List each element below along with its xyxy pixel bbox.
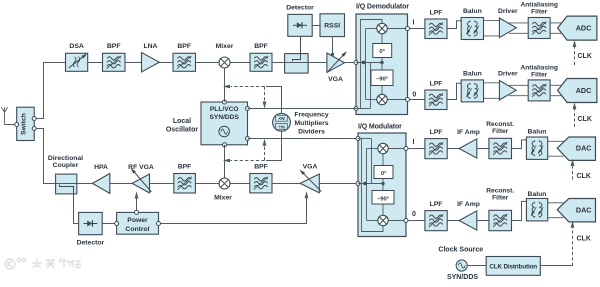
attenuator DSA bbox=[66, 53, 88, 71]
svg-text:I: I bbox=[413, 20, 415, 27]
wire power control to TX VGA bbox=[161, 199, 307, 224]
amplifier driver bbox=[499, 80, 516, 100]
wire antenna to switch bbox=[5, 124, 15, 126]
svg-text:Balun: Balun bbox=[528, 191, 547, 198]
svg-text:LPF: LPF bbox=[430, 201, 443, 208]
wire CLK distribution to DAC clk bbox=[540, 265, 572, 267]
svg-text:Balun: Balun bbox=[463, 8, 482, 15]
wire LPF-IFamp bbox=[447, 148, 459, 150]
svg-text:Filter: Filter bbox=[492, 128, 509, 135]
I/Q demodulator block bbox=[356, 14, 408, 115]
DAC bbox=[557, 199, 595, 222]
wire IFamp-reconst bbox=[477, 148, 489, 150]
svg-text:ADC: ADC bbox=[576, 24, 592, 33]
svg-text:×N: ×N bbox=[278, 116, 285, 122]
wire HPA-RFVGA bbox=[110, 183, 132, 185]
amplifier IF Amp bbox=[459, 139, 477, 158]
amplifier IF Amp bbox=[459, 211, 477, 230]
dashed arrow to demod LO line bbox=[264, 87, 266, 101]
balun TX bbox=[526, 137, 547, 159]
svg-text:BPF: BPF bbox=[177, 43, 191, 50]
mod RF output port bbox=[356, 182, 360, 186]
filter LPF TX bbox=[425, 139, 447, 159]
svg-text:SYN/DDS: SYN/DDS bbox=[210, 114, 240, 121]
svg-text:LNA: LNA bbox=[144, 43, 158, 50]
dashed arrow to mod LO line bbox=[264, 147, 266, 161]
svg-text:CLK Distribution: CLK Distribution bbox=[489, 264, 537, 271]
wire mod Q in bbox=[388, 220, 406, 222]
wire TXVGA-modulator bbox=[319, 183, 356, 185]
svg-text:BPF: BPF bbox=[107, 43, 121, 50]
svg-text:Filter: Filter bbox=[492, 194, 509, 201]
reconstruction filter bbox=[489, 210, 512, 230]
mod LO input port bbox=[356, 137, 360, 141]
svg-text:Filter: Filter bbox=[531, 71, 548, 78]
wire LPF-balun jog bbox=[447, 83, 461, 99]
power control block bbox=[117, 212, 159, 234]
svg-text:Directional: Directional bbox=[48, 155, 83, 162]
wire clock source to CLK distribution bbox=[467, 265, 486, 267]
svg-text:0°: 0° bbox=[379, 49, 385, 55]
svg-text:Reconst.: Reconst. bbox=[486, 121, 514, 128]
switch port right top bbox=[32, 117, 36, 121]
wire BPF3-coupler bbox=[272, 62, 285, 64]
svg-text:Balun: Balun bbox=[463, 70, 482, 77]
svg-text:Filter: Filter bbox=[531, 8, 548, 15]
demod phase chain wires bbox=[381, 34, 383, 44]
svg-text:I: I bbox=[413, 139, 415, 146]
amplifier LNA bbox=[142, 53, 160, 73]
ADC bbox=[558, 79, 597, 103]
filter BPF3 bbox=[250, 53, 272, 71]
svg-text:Driver: Driver bbox=[498, 70, 518, 77]
wire PLL to mod LO bbox=[248, 138, 359, 140]
svg-text:IF Amp: IF Amp bbox=[457, 201, 480, 208]
phase shifter -90 deg mod bbox=[372, 191, 394, 205]
svg-text:IF Amp: IF Amp bbox=[457, 129, 480, 136]
wire LNA-BPF2 bbox=[159, 62, 173, 64]
PLL port bottom bbox=[223, 143, 227, 147]
diff pair driver-filter bbox=[509, 22, 528, 24]
wire switch to directional coupler bbox=[36, 129, 55, 184]
svg-text:I/Q Demodulator: I/Q Demodulator bbox=[356, 4, 409, 11]
svg-text:CLK: CLK bbox=[578, 53, 592, 60]
wire BPF2-mixer bbox=[196, 62, 219, 64]
svg-text:VGA: VGA bbox=[303, 164, 318, 171]
filter LPF bbox=[425, 90, 447, 110]
filter BPF TX bbox=[250, 174, 272, 193]
svg-text:HPA: HPA bbox=[94, 164, 108, 171]
svg-text:LPF: LPF bbox=[430, 9, 443, 16]
reconstruction filter bbox=[489, 138, 512, 158]
diff pair balun-DAC bbox=[548, 202, 564, 204]
wire mod I in bbox=[388, 148, 406, 150]
amplifier VGA RX bbox=[327, 53, 345, 73]
svg-text:DAC: DAC bbox=[576, 206, 592, 215]
phase shifter 0 deg demod bbox=[373, 44, 392, 58]
wire PLL to TX mixer bbox=[224, 145, 226, 178]
amplifier HPA bbox=[92, 174, 109, 194]
wire detector-RSSI bbox=[312, 25, 320, 27]
svg-text:BPF: BPF bbox=[254, 43, 268, 50]
filter LPF TX bbox=[425, 211, 447, 231]
wire RFVGA-BPFa bbox=[150, 183, 174, 185]
svg-text:Mixer: Mixer bbox=[216, 43, 234, 50]
svg-text:VGA: VGA bbox=[328, 76, 343, 83]
wire coupler-HPA bbox=[77, 183, 93, 185]
CLK arrow DAC bbox=[572, 166, 574, 180]
PLL/VCO local oscillator bbox=[201, 102, 248, 145]
wire TXmixer-BPF4 bbox=[230, 183, 250, 185]
svg-text:CLK: CLK bbox=[577, 236, 591, 243]
demod Q out port bbox=[406, 98, 410, 102]
mod Q port bbox=[404, 219, 408, 223]
svg-text:BPF: BPF bbox=[178, 164, 192, 171]
diff pair balun-driver bbox=[484, 19, 501, 21]
svg-text:Coupler: Coupler bbox=[53, 162, 79, 169]
svg-text:Frequency: Frequency bbox=[294, 112, 329, 119]
diff pair driver-filter bbox=[509, 84, 528, 86]
arrow RSSI to VGA bbox=[332, 37, 334, 54]
mixer TX bbox=[219, 178, 230, 189]
demod I out port bbox=[406, 27, 410, 31]
wire VGA-demodulator bbox=[345, 62, 355, 64]
coupled line TX tap bbox=[60, 185, 74, 194]
svg-text:Control: Control bbox=[125, 226, 149, 233]
svg-text:Switch: Switch bbox=[21, 113, 28, 135]
balun bbox=[461, 18, 483, 40]
amplifier RF VGA bbox=[132, 174, 149, 193]
balun bbox=[461, 80, 483, 102]
svg-text:Driver: Driver bbox=[498, 8, 518, 15]
wire demod I out bbox=[387, 28, 407, 30]
svg-text:Detector: Detector bbox=[77, 240, 105, 247]
svg-text:ADC: ADC bbox=[576, 86, 592, 95]
switch port left bbox=[15, 123, 19, 127]
svg-text:DAC: DAC bbox=[576, 144, 592, 153]
ADC bbox=[558, 16, 597, 40]
wire LPF-IFamp bbox=[447, 220, 459, 222]
power control port top bbox=[135, 210, 139, 214]
filter BPF1 bbox=[103, 53, 126, 71]
svg-text:PLL/VCO: PLL/VCO bbox=[210, 106, 239, 113]
mixer mod Q bbox=[378, 215, 388, 225]
svg-text:Multipliers: Multipliers bbox=[295, 120, 329, 127]
wire detector-power control bbox=[102, 223, 114, 225]
wire multiplier bottom bbox=[266, 131, 282, 160]
balun TX bbox=[526, 199, 547, 221]
phase shifter 0 deg mod bbox=[374, 166, 393, 179]
filter LPF bbox=[425, 19, 447, 39]
power control port right bbox=[157, 222, 161, 226]
switch SW1 bbox=[17, 107, 35, 140]
switch port right bottom bbox=[32, 127, 36, 131]
junction mod phase bbox=[381, 182, 384, 185]
wire LPF-balun jog bbox=[447, 21, 461, 29]
wire mod-LPF bbox=[408, 148, 425, 150]
wire IFamp-reconst bbox=[477, 220, 489, 222]
svg-text:0: 0 bbox=[412, 211, 416, 218]
wire PLL to RX mixer bbox=[224, 68, 226, 102]
mixer mod I bbox=[378, 143, 388, 153]
mixer demod Q bbox=[377, 94, 387, 104]
mod inner wires bbox=[358, 138, 372, 140]
antenna bbox=[1, 107, 4, 112]
watermark bbox=[5, 258, 81, 269]
wire coupler tap to detector bbox=[74, 194, 79, 224]
PLL port right top bbox=[246, 107, 250, 111]
wire demod-LPF bbox=[410, 99, 425, 101]
CLK arrow DAC bbox=[572, 228, 574, 266]
wire DSA-BPF1 bbox=[88, 62, 103, 64]
wire BPF1-LNA bbox=[125, 62, 142, 64]
wire switch to DSA bbox=[36, 63, 65, 119]
svg-text:LPF: LPF bbox=[430, 129, 443, 136]
diff pair filter-ADC bbox=[550, 84, 562, 86]
wire reconst-balun jog bbox=[512, 140, 527, 149]
wire demod-LPF bbox=[410, 28, 425, 30]
mod phase chain wires bbox=[382, 154, 384, 166]
PLL port right bottom bbox=[246, 137, 250, 141]
svg-text:LPF: LPF bbox=[430, 80, 443, 87]
svg-text:Dividers: Dividers bbox=[298, 129, 325, 136]
svg-text:CLK: CLK bbox=[577, 173, 591, 180]
svg-text:÷N: ÷N bbox=[278, 124, 285, 130]
svg-text:0°: 0° bbox=[381, 171, 387, 177]
wire reconst-balun jog bbox=[512, 201, 527, 220]
mixer demod I bbox=[377, 23, 387, 33]
CLK distribution block bbox=[486, 257, 540, 276]
svg-text:CLK: CLK bbox=[578, 116, 592, 123]
directional coupler bbox=[56, 174, 77, 194]
coupler RX tap bbox=[285, 54, 309, 74]
wire demod Q out bbox=[387, 99, 407, 101]
detector TX bbox=[79, 212, 103, 234]
RSSI block bbox=[320, 14, 345, 37]
svg-text:Mixer: Mixer bbox=[214, 194, 232, 201]
diff pair filter-ADC bbox=[550, 22, 562, 24]
detector RX bbox=[288, 14, 312, 36]
clock source oscillator bbox=[456, 260, 467, 271]
PLL port top bbox=[223, 100, 227, 104]
svg-text:–90°: –90° bbox=[377, 196, 390, 202]
amplifier VGA TX bbox=[300, 174, 319, 193]
DAC bbox=[557, 137, 595, 160]
svg-text:0: 0 bbox=[412, 91, 416, 98]
arrow power control to RF VGA bbox=[136, 199, 138, 211]
wire coupler-VGA bbox=[308, 62, 327, 64]
junction mod RF bbox=[363, 182, 366, 185]
diff pair balun-driver bbox=[484, 82, 501, 84]
svg-text:Balun: Balun bbox=[528, 129, 547, 136]
svg-text:Clock Source: Clock Source bbox=[438, 246, 483, 253]
frequency multiplier divider circle bbox=[273, 113, 291, 131]
svg-text:DSA: DSA bbox=[69, 43, 83, 50]
wire multiplier top bbox=[266, 87, 282, 114]
wire PLL to demod LO bbox=[248, 108, 357, 110]
svg-text:Oscillator: Oscillator bbox=[166, 127, 199, 134]
dashed LO to RX mixer bbox=[231, 86, 265, 88]
demod inner wires bbox=[356, 108, 371, 110]
amplifier driver bbox=[499, 18, 516, 38]
demod LO input port bbox=[354, 107, 358, 111]
svg-text:I/Q Modulator: I/Q Modulator bbox=[358, 124, 402, 131]
wire BPFa-TXmixer bbox=[195, 183, 218, 185]
mixer RX bbox=[219, 57, 230, 68]
svg-text:–90°: –90° bbox=[376, 77, 389, 83]
svg-text:Power: Power bbox=[127, 217, 148, 224]
wire BPF4-TXVGA bbox=[272, 183, 300, 185]
I/Q modulator block bbox=[358, 133, 406, 237]
svg-text:RSSI: RSSI bbox=[324, 23, 340, 30]
wire mixer-BPF3 bbox=[230, 62, 251, 64]
svg-text:Reconst.: Reconst. bbox=[486, 187, 514, 194]
svg-text:BPF: BPF bbox=[254, 164, 268, 171]
filter BPF2 bbox=[173, 53, 196, 71]
CLK arrow bbox=[574, 47, 576, 65]
junction demod RF bbox=[362, 61, 365, 64]
antialiasing filter bbox=[528, 80, 550, 101]
demod RF input port bbox=[354, 61, 358, 65]
diff pair balun-DAC bbox=[548, 140, 564, 142]
svg-text:Local: Local bbox=[173, 118, 191, 125]
dashed LO to TX mixer bbox=[231, 160, 265, 162]
wire mod-LPF bbox=[408, 220, 425, 222]
junction demod phase bbox=[380, 61, 383, 64]
antialiasing filter bbox=[528, 18, 550, 39]
mod I port bbox=[404, 147, 408, 151]
filter BPF TX a bbox=[174, 174, 196, 194]
CLK arrow bbox=[574, 109, 576, 127]
svg-text:Detector: Detector bbox=[286, 5, 314, 12]
coupled line RX detector tap bbox=[293, 36, 301, 61]
power control port left bbox=[115, 222, 119, 226]
phase shifter -90 deg demod bbox=[371, 70, 393, 86]
svg-text:SYN/DDS: SYN/DDS bbox=[447, 274, 478, 281]
